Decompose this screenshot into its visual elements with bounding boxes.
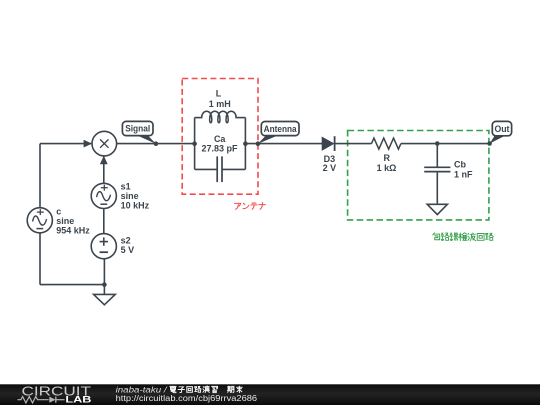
svg-text:s2: s2 (121, 236, 131, 246)
svg-text:954 kHz: 954 kHz (56, 226, 90, 236)
svg-text:Ca: Ca (214, 134, 226, 144)
svg-text:s1: s1 (121, 182, 131, 192)
svg-text:R: R (384, 153, 391, 163)
svg-text:2 V: 2 V (323, 163, 337, 173)
svg-text:Cb: Cb (454, 160, 466, 170)
svg-text:27.83 pF: 27.83 pF (201, 143, 238, 153)
svg-text:Antenna: Antenna (264, 124, 298, 134)
svg-text:5 V: 5 V (121, 245, 135, 255)
svg-text:1 kΩ: 1 kΩ (377, 163, 397, 173)
svg-text:1 mH: 1 mH (209, 99, 231, 109)
svg-text:c: c (56, 207, 61, 217)
svg-text:1 nF: 1 nF (454, 170, 473, 180)
svg-text:L: L (216, 89, 222, 99)
svg-text:sine: sine (121, 191, 139, 201)
svg-text:sine: sine (56, 216, 74, 226)
svg-text:10 kHz: 10 kHz (121, 201, 150, 211)
svg-text:http://circuitlab.com/cbj69rrv: http://circuitlab.com/cbj69rrva2686 (116, 393, 258, 403)
svg-text:Out: Out (494, 124, 509, 134)
svg-text:LAB: LAB (65, 395, 91, 405)
svg-text:Signal: Signal (125, 124, 150, 134)
